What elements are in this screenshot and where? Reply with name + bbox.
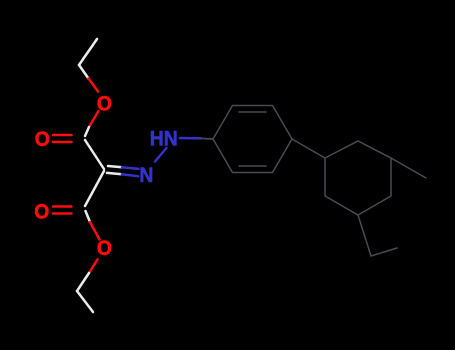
svg-text:O: O	[97, 91, 112, 115]
svg-text:N: N	[139, 163, 153, 187]
svg-text:O: O	[34, 200, 49, 224]
svg-text:O: O	[35, 127, 50, 151]
svg-text:HN: HN	[150, 127, 178, 151]
svg-text:O: O	[97, 236, 112, 260]
